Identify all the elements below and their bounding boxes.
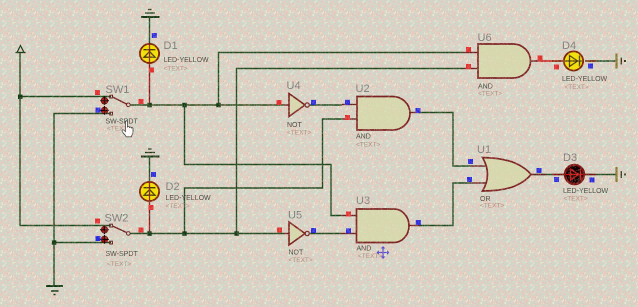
OR gate U1 bbox=[471, 144, 531, 210]
logic state U3 input A (red) bbox=[346, 212, 351, 217]
logic state U5 input (red) bbox=[277, 228, 282, 233]
wire: node B branch to U2 input B bbox=[185, 119, 343, 234]
NOT gate U4 bbox=[284, 80, 311, 137]
NOT gate U5 bbox=[284, 210, 313, 265]
logic state D3 cathode (blue) bbox=[590, 177, 595, 182]
logic state D3 anode (blue) bbox=[554, 177, 559, 182]
logic state D1 anode (red) bbox=[149, 68, 154, 73]
ground above D2 bbox=[141, 149, 160, 157]
AND gate U6 bbox=[463, 32, 538, 98]
wire: node B branch up to U6 input B bbox=[237, 69, 464, 234]
logic state U4 output (blue) bbox=[311, 100, 316, 105]
wire: rail to SW1 top throw bbox=[20, 96, 111, 98]
power terminal arrow bbox=[16, 46, 26, 53]
wire: left rail vertical bbox=[20, 53, 111, 226]
ground (bottom left) bbox=[46, 286, 63, 295]
wire: D3 cathode to right terminal bbox=[585, 174, 616, 176]
wire: SW1 bottom throw down to ground column bbox=[54, 114, 111, 287]
terminal after D3 bbox=[617, 167, 627, 182]
junction: D1 / node A bbox=[147, 103, 152, 108]
wire: node A branch down to U3 route bbox=[185, 105, 342, 216]
wire: D2 anode to node B (red, +V) bbox=[149, 201, 151, 234]
logic state D4 cathode (blue) bbox=[588, 64, 593, 69]
AND gate U3 bbox=[341, 195, 420, 260]
wire: ground column to SW2 bottom throw bbox=[54, 242, 111, 244]
logic state U3 input B (blue) bbox=[346, 228, 351, 233]
wire: node A row SW1 pole to U4 input bbox=[129, 104, 284, 106]
wire: U3 output to U1 input B bbox=[419, 183, 471, 226]
junction: rail / SW1 top bbox=[18, 95, 23, 100]
wire: D1 anode to node A (red, +V) bbox=[149, 63, 151, 105]
logic state SW2 top throw (red) bbox=[95, 219, 100, 224]
logic state SW1 pole (red) bbox=[139, 99, 144, 104]
switch SW2 bbox=[100, 213, 138, 269]
logic state U2 input A (blue) bbox=[345, 100, 350, 105]
wire: U4 output to U2 input A bbox=[309, 104, 342, 106]
logic state SW1 top throw (red) bbox=[95, 90, 100, 95]
junction: node B / U2B branch bbox=[182, 231, 187, 236]
junction: ground column / SW2 bottom bbox=[52, 240, 57, 245]
mouse cursor hand at SW1 bbox=[122, 121, 133, 137]
logic state U3 output (blue) bbox=[416, 220, 421, 225]
wire: node B row SW2 pole to U5 input bbox=[129, 233, 284, 235]
junction: D2 / node B bbox=[147, 231, 152, 236]
LED D3 (off) bbox=[552, 152, 609, 203]
wire: D4 cathode to right terminal bbox=[585, 60, 616, 62]
logic state U5 output (blue) bbox=[311, 228, 316, 233]
terminal after D4 bbox=[617, 54, 627, 69]
logic state U6 output (red) bbox=[538, 56, 543, 61]
wire: ground to D1 cathode bbox=[149, 17, 151, 44]
wire: ground to D2 cathode bbox=[149, 157, 151, 183]
logic state U1 output (blue) bbox=[537, 168, 542, 173]
logic state SW1 bottom throw (blue) bbox=[96, 108, 101, 113]
pin: U1 output stub bbox=[531, 174, 546, 176]
junction: node A / U6A branch bbox=[216, 103, 221, 108]
logic state SW2 pole (red) bbox=[139, 228, 144, 233]
ground above D1 bbox=[141, 10, 160, 18]
logic state SW2 bottom throw (blue) bbox=[96, 236, 101, 241]
AND gate U2 bbox=[342, 83, 420, 149]
logic state U1 input A (blue) bbox=[468, 159, 473, 164]
logic state U2 output (blue) bbox=[416, 108, 421, 113]
logic state U6 input B (red) bbox=[466, 64, 471, 69]
logic state U2 input B (red) bbox=[345, 115, 350, 120]
wire: U6 output to D4 anode (red, +V) bbox=[536, 60, 564, 62]
wire: U2 output to U1 input A bbox=[419, 113, 471, 167]
logic state U1 input B (blue) bbox=[467, 177, 472, 182]
junction: node A / down branch bbox=[182, 103, 187, 108]
logic state D2 anode (red) bbox=[149, 205, 154, 210]
wire: node A branch up to U6 input A bbox=[219, 53, 464, 106]
logic state D1 cathode (blue) bbox=[152, 33, 157, 38]
logic state D4 anode (red) bbox=[554, 65, 559, 70]
switch SW1 bbox=[100, 84, 138, 133]
LED D1 (lit) bbox=[140, 40, 209, 73]
wire: U5 output to U3 input B bbox=[309, 233, 341, 235]
logic state U6 input A (red) bbox=[466, 47, 471, 52]
origin marker near U3 bbox=[377, 246, 390, 259]
logic state U4 input (red) bbox=[277, 100, 282, 105]
LED D4 (lit) bbox=[552, 40, 608, 91]
LED D2 (lit) bbox=[140, 181, 211, 210]
logic state D2 cathode (blue) bbox=[151, 172, 156, 177]
junction: node B / U6B branch bbox=[234, 231, 239, 236]
wire: U1 output to D3 anode bbox=[531, 174, 564, 176]
